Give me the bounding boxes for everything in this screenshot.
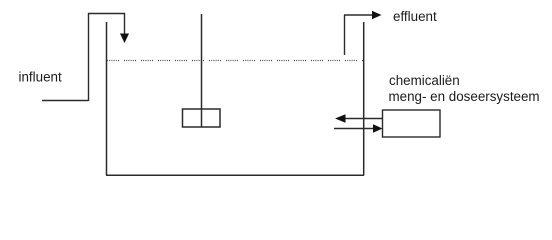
svg-text:influent: influent xyxy=(19,70,62,85)
svg-text:chemicaliën: chemicaliën xyxy=(389,73,460,88)
svg-text:meng- en doseersysteem: meng- en doseersysteem xyxy=(389,89,540,104)
svg-text:effluent: effluent xyxy=(393,9,437,24)
